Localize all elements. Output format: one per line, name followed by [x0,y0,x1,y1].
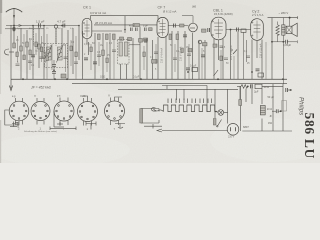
dial lamp [217,110,228,116]
capacitor C14 0,05uF [271,40,297,44]
resistor R12 [169,34,172,40]
switch S1 [233,50,237,55]
wire gang link dashed [33,27,35,47]
bus junction nodes [22,71,284,80]
resistor R8 [113,34,116,40]
capacitor C1 1,5pF [39,23,41,27]
resistor R1 [13,43,16,48]
wire grid row [168,25,188,27]
tube U4 electrodes [212,19,223,38]
node [124,29,126,31]
capacitor C3 [31,55,35,57]
trimmer detail b [50,122,76,130]
trimmer detail e [144,124,162,129]
wire power columns [246,84,283,131]
node antenna junction [13,25,15,27]
wire drops to speaker [282,18,284,25]
wire extra density front-end [18,33,77,79]
trimmer detail a [10,122,18,128]
wire left drop to ground [10,25,12,88]
component box [192,68,198,72]
socket V2 [31,98,50,125]
wire heater runs [162,86,241,132]
component box [203,43,208,46]
resistor extras left [16,42,77,61]
capacitor C17 [286,88,292,92]
component box [152,60,158,64]
resistor R5 [133,24,140,27]
coil detail choke [140,109,159,124]
wire vertical front-end columns [14,26,79,80]
resistor extras mid [90,47,222,63]
wire tube1 columns [83,31,111,79]
resistor R9 [102,50,105,56]
capacitor C13 [237,28,239,32]
capacitor C11 [201,55,205,57]
capacitor C9 [174,24,176,28]
capacitor C19 on mains line [272,109,282,113]
switch S3 mains [217,120,222,128]
socket V1 [5,98,29,125]
component box on bus [61,74,66,78]
wire secondary row [5,28,44,30]
wire coupling CBL1 to CY2 [226,29,251,31]
capacitor C7 [93,62,97,64]
capacitor C8 [145,39,147,43]
resistor R11 [180,24,185,27]
wire cathode line [92,30,123,32]
wire bus 2 [72,83,287,85]
switch S2 [214,70,219,76]
resistor R3 [26,42,29,47]
wire field coil return [282,42,284,84]
node dots on tuner wire [32,25,80,27]
wire T2 secondary link [129,44,140,46]
wire IF2 columns [121,27,153,80]
capacitor C12 [208,28,210,32]
capacitor C23 below CBL1 [220,46,224,48]
capacitor C6 [84,58,88,60]
wire HT riser [271,18,273,79]
socket V4 [78,96,98,126]
component box grid stopper [202,29,207,32]
wire tube5 columns [252,40,262,80]
wire tube4 columns [214,30,238,80]
wire tube2 columns [158,31,205,79]
resistor R7 [106,34,109,40]
antenna [6,8,22,25]
tube U2 CF7 envelope [157,17,168,37]
tube U1 electrodes [83,20,89,37]
electrolytic C18 [260,106,265,115]
text annotations [12,6,317,159]
tube U1 CK1 envelope [82,18,92,38]
capacitor C5 [52,72,56,80]
component box rect left of CY2 [241,29,246,32]
trimmer detail c [86,122,96,130]
resistor R4 [38,44,41,49]
scan noise left edge [0,0,2,163]
capacitor C10 [183,35,187,37]
wire plate line CK1 [91,16,159,20]
resistor R15 [213,119,216,126]
tube U3 small triode [189,23,198,32]
tube U5 CY2 envelope [251,19,264,41]
speaker LS1 [286,23,297,36]
component circle [198,40,202,44]
wire drop [124,16,126,33]
dashed IF transformer T2 [118,40,130,65]
node 280V junction [289,17,291,19]
trimmer detail d [115,124,125,129]
resistor R17 [149,28,153,31]
resistor R2 [20,46,23,51]
ground arrow [9,86,12,91]
node [230,29,232,31]
wire main bus B+ [11,78,287,80]
field coil hatched box [282,25,285,35]
wire mains cord [162,130,228,132]
capacitor C20 40pF [131,28,133,32]
socket V5 [105,97,125,125]
coil antenna coupling [12,27,15,32]
text specks left band [16,39,250,71]
capacitor C2 [63,24,65,28]
resistor R14 zigzag [276,25,279,36]
resistor R13 [176,34,179,40]
wire bottom return [242,130,292,132]
power rectifier row [237,84,283,88]
label specks under tuner wire [17,28,74,30]
tube U4 CBL1 envelope [211,17,226,40]
resistor R18 [120,37,124,40]
wire CY2 left leads [243,32,245,79]
connector input [5,49,10,55]
resistor R16 [239,100,242,106]
trimmer CT1 [54,25,57,28]
component box [258,73,264,77]
capacitor C15 [186,68,190,70]
capacitor extras left [16,57,79,66]
capacitor extras mid [97,50,250,60]
node dropper-lamp [215,111,217,113]
heater dropper element [164,99,216,112]
resistor R21 below CBL1 [213,44,217,47]
resistor R10 [139,39,143,43]
mains plug P1 [227,124,239,136]
wire mains lead left [154,109,164,112]
wire heater bus [118,88,238,90]
resistor R19 [128,38,132,41]
resistor R6 [98,34,101,40]
resistor R20 [144,38,148,41]
tube U5 electrodes [252,21,261,39]
node [53,69,55,71]
capacitor C4 [52,60,56,71]
capacitor C21 [136,28,138,32]
wire screen line [94,24,157,26]
tube U2 electrodes [158,19,165,36]
arrow on wire [19,24,22,26]
wire antenna to tuner [6,25,79,27]
dashed IF transformer T1 [45,44,68,68]
capacitor C16 [256,69,260,71]
wire extra density mid [91,40,266,79]
capacitor C22 6pF [145,28,147,32]
resistor R22 below small tube [188,49,192,52]
socket V3 [54,98,74,128]
wire top right 280V line [268,17,298,19]
coil L1 [43,52,46,58]
electrolytic C24 [282,101,287,112]
